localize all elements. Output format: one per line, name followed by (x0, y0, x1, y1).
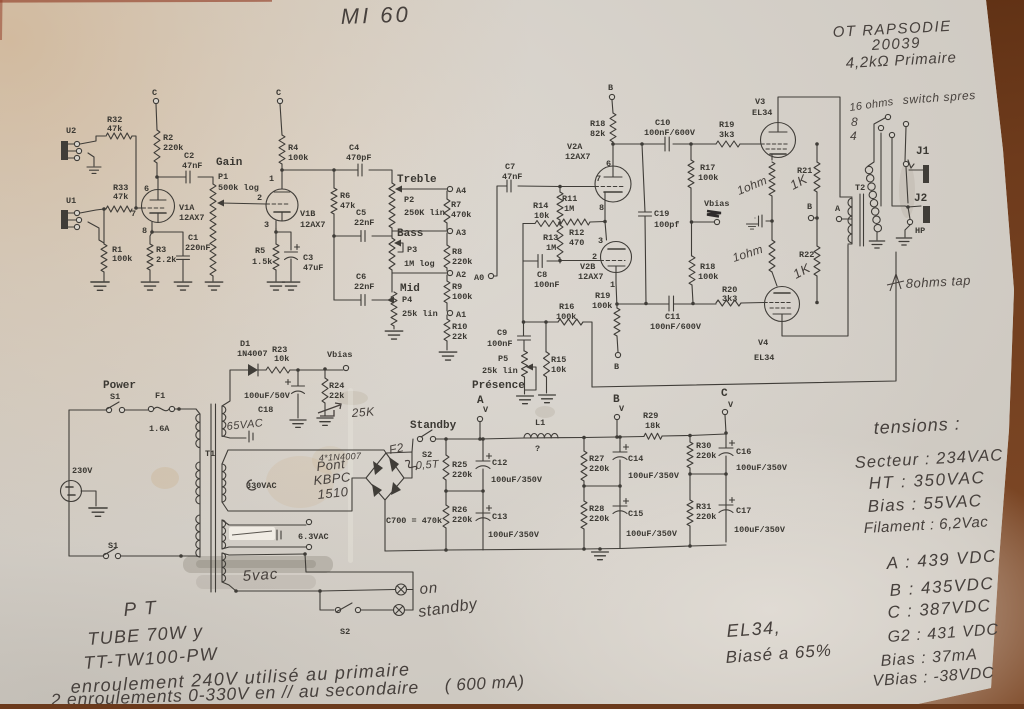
svg-text:C12: C12 (492, 458, 507, 468)
V3 plate wire to OT (778, 97, 840, 197)
svg-text:C: C (152, 88, 157, 98)
svg-text:R15: R15 (551, 355, 566, 365)
svg-text:T1: T1 (205, 449, 215, 459)
svg-text:100uF/350V: 100uF/350V (628, 471, 680, 481)
wire bass row (392, 228, 447, 238)
svg-text:470: 470 (569, 238, 584, 248)
warm tint top-left corner (0, 0, 1, 1)
svg-text:B: B (807, 202, 812, 212)
svg-text:100k: 100k (288, 153, 308, 163)
svg-text:220k: 220k (452, 515, 472, 525)
svg-text:U2: U2 (66, 126, 76, 136)
wire to V2B grid (560, 258, 600, 263)
svg-text:R13: R13 (543, 233, 558, 243)
T1 5V winding (222, 553, 226, 582)
svg-text:47uF: 47uF (303, 263, 323, 273)
svg-text:V1B: V1B (300, 209, 315, 219)
svg-text:22k: 22k (329, 391, 344, 401)
tube V2B 12AX7 (601, 242, 632, 273)
svg-text:R7: R7 (451, 200, 461, 210)
svg-text:A1: A1 (456, 310, 466, 320)
T1 bias winding 65VAC (222, 406, 226, 436)
svg-text:220nF: 220nF (185, 243, 211, 253)
T2 secondary (hand-drawn loops) (865, 166, 872, 173)
svg-text:R19: R19 (719, 120, 734, 130)
svg-text:7: 7 (131, 209, 136, 219)
svg-text:4: 4 (850, 129, 857, 143)
svg-text:12AX7: 12AX7 (300, 220, 326, 230)
svg-text:Présence: Présence (472, 380, 525, 392)
svg-text:47nF: 47nF (182, 161, 202, 171)
node B (bias test) (816, 192, 818, 246)
svg-text:1.6A: 1.6A (149, 424, 170, 434)
input jack U2 (61, 141, 68, 160)
svg-text:C15: C15 (628, 509, 643, 519)
svg-text:C6: C6 (356, 272, 366, 282)
svg-text:R25: R25 (452, 460, 467, 470)
svg-text:7: 7 (596, 174, 601, 184)
svg-text:V: V (619, 404, 625, 414)
svg-text:100nF/600V: 100nF/600V (644, 128, 696, 138)
V3 cathode resistor 1 ohm (769, 162, 775, 196)
svg-text:R22: R22 (799, 250, 814, 260)
node grid V1A (102, 207, 106, 211)
svg-text:22nF: 22nF (354, 282, 374, 292)
wire left branch down to C8 (522, 224, 524, 262)
svg-text:U1: U1 (66, 196, 76, 206)
on/standby circuit (305, 554, 413, 610)
svg-text:1: 1 (269, 174, 274, 184)
svg-text:220k: 220k (696, 451, 716, 461)
svg-text:C19: C19 (654, 209, 669, 219)
svg-text:P5: P5 (498, 354, 508, 364)
svg-text:R4: R4 (288, 143, 298, 153)
wire U1 sleeve down (88, 222, 104, 243)
svg-text:2.2k: 2.2k (156, 255, 176, 265)
node A3 (447, 228, 452, 233)
svg-text:1: 1 (610, 280, 615, 290)
svg-text:R30: R30 (696, 441, 711, 451)
svg-text:C1: C1 (188, 233, 198, 243)
svg-text:R26: R26 (452, 505, 467, 515)
white-out correction patch (229, 527, 275, 540)
svg-text:1M: 1M (546, 243, 556, 253)
svg-text:220k: 220k (163, 143, 183, 153)
capacitor C16 (730, 441, 735, 446)
svg-text:470k: 470k (451, 210, 471, 220)
wire R32 to grid node (132, 136, 136, 208)
P4 wiper from C6 (385, 299, 389, 301)
svg-text:R3: R3 (156, 245, 166, 255)
svg-text:12AX7: 12AX7 (565, 152, 591, 162)
svg-text:F1: F1 (155, 391, 165, 401)
svg-text:A0: A0 (474, 273, 484, 283)
svg-text:C11: C11 (665, 312, 680, 322)
svg-text:C17: C17 (736, 506, 751, 516)
svg-text:12AX7: 12AX7 (179, 213, 205, 223)
svg-text:Power: Power (103, 380, 136, 392)
svg-text:Bass: Bass (397, 228, 423, 240)
svg-text:V3: V3 (755, 97, 765, 107)
svg-text:V4: V4 (758, 338, 768, 348)
svg-text:D1: D1 (240, 339, 250, 349)
svg-text:47nF: 47nF (502, 172, 522, 182)
svg-text:V: V (483, 405, 489, 415)
T1 core (211, 404, 216, 592)
svg-text:EL34,: EL34, (726, 617, 782, 641)
svg-text:6: 6 (144, 184, 149, 194)
wire A0 to C7 (494, 186, 507, 276)
svg-text:6: 6 (606, 159, 611, 169)
P1 wiper wire to V1B grid (221, 203, 266, 204)
svg-text:47k: 47k (107, 124, 122, 134)
svg-text:100nF/600V: 100nF/600V (650, 322, 702, 332)
svg-text:R16: R16 (559, 302, 574, 312)
svg-text:J2: J2 (914, 193, 927, 205)
svg-text:R27: R27 (589, 454, 604, 464)
svg-text:?: ? (535, 444, 540, 454)
P2 wiper to A4 (399, 188, 447, 190)
bridge rectifier (366, 453, 404, 500)
svg-text:5vac: 5vac (242, 566, 279, 585)
svg-text:10k: 10k (534, 211, 549, 221)
svg-text:Standby: Standby (410, 420, 457, 432)
wire U2 tip to R32 (80, 136, 105, 144)
svg-text:C2: C2 (184, 151, 194, 161)
svg-text:C18: C18 (258, 405, 273, 415)
indicator lamp on (396, 584, 407, 595)
wire C8 branch down to C9 junction (522, 261, 524, 322)
tube V1A 12AX7 (142, 190, 175, 223)
svg-text:R10: R10 (452, 322, 467, 332)
svg-text:100k: 100k (452, 292, 472, 302)
svg-text:C10: C10 (655, 118, 670, 128)
svg-text:R9: R9 (452, 282, 462, 292)
svg-text:R24: R24 (329, 381, 344, 391)
svg-text:R19: R19 (595, 291, 610, 301)
svg-text:V2A: V2A (567, 142, 583, 152)
svg-text:C: C (276, 88, 281, 98)
svg-text:470pF: 470pF (346, 153, 372, 163)
left mains wire (68, 410, 70, 556)
svg-text:25K: 25K (350, 404, 375, 420)
T1 heater winding 6.3VAC (222, 520, 226, 549)
handwritten 8 ohms tap + arrow (887, 274, 904, 291)
ground R1 (91, 282, 109, 290)
svg-text:82k: 82k (590, 129, 605, 139)
capacitor C14 (624, 445, 629, 450)
svg-text:100pf: 100pf (654, 220, 680, 230)
node B bottom (615, 352, 620, 357)
svg-text:on: on (419, 579, 439, 598)
svg-text:220k: 220k (452, 470, 472, 480)
svg-text:2: 2 (592, 252, 597, 262)
wire grid node to V1A (136, 207, 142, 209)
svg-text:R8: R8 (452, 247, 462, 257)
svg-text:EL34: EL34 (754, 353, 774, 363)
T2 core (860, 194, 864, 246)
svg-text:100uF/50V: 100uF/50V (244, 391, 291, 401)
handwritten trimmer mark 25K (318, 403, 341, 416)
svg-text:1N4007: 1N4007 (237, 349, 268, 359)
svg-text:V1A: V1A (179, 203, 195, 213)
cathode bypass cap + ground (759, 215, 773, 227)
svg-text:6.3VAC: 6.3VAC (298, 532, 329, 542)
svg-text:S1: S1 (110, 392, 120, 402)
wire U1 tip to grid node (80, 209, 104, 213)
svg-text:22k: 22k (452, 332, 467, 342)
svg-text:500k log: 500k log (218, 183, 259, 193)
svg-text:EL34: EL34 (752, 108, 772, 118)
wire V1B cathode node (276, 228, 291, 250)
svg-text:C8: C8 (537, 270, 547, 280)
svg-text:2: 2 (257, 193, 262, 203)
svg-text:12AX7: 12AX7 (578, 272, 604, 282)
svg-text:R5: R5 (255, 246, 265, 256)
svg-text:Vbias: Vbias (704, 199, 730, 209)
svg-text:10k: 10k (274, 354, 289, 364)
svg-text:P1: P1 (218, 172, 228, 182)
B+ rail (446, 434, 726, 439)
svg-text:R14: R14 (533, 201, 548, 211)
svg-text:A2: A2 (456, 270, 466, 280)
ground U2 (88, 153, 94, 166)
svg-text:C14: C14 (628, 454, 643, 464)
wire V1B plate to tone stack (282, 170, 392, 183)
svg-text:MI 60: MI 60 (340, 2, 411, 29)
svg-text:PT: PT (123, 597, 165, 621)
svg-text:P3: P3 (407, 245, 417, 255)
capacitor C12 (487, 454, 492, 459)
bridge + output riser (386, 452, 412, 478)
svg-text:Mid: Mid (400, 283, 420, 295)
svg-text:HP: HP (915, 226, 925, 236)
svg-text:8: 8 (599, 203, 604, 213)
ground rail bottom (385, 545, 726, 551)
wire V1A cathode node (150, 229, 183, 256)
svg-text:C700 = 470k: C700 = 470k (386, 516, 442, 526)
svg-text:25k lin: 25k lin (402, 309, 438, 319)
svg-text:V: V (728, 400, 734, 410)
indicator lamp standby (394, 605, 405, 616)
svg-text:A3: A3 (456, 228, 466, 238)
svg-text:100uF/350V: 100uF/350V (734, 525, 786, 535)
svg-text:1.5k: 1.5k (252, 257, 272, 267)
svg-text:100k: 100k (112, 254, 132, 264)
svg-text:1M: 1M (564, 204, 574, 214)
svg-text:25k lin: 25k lin (482, 366, 518, 376)
svg-text:R18: R18 (700, 262, 715, 272)
input jack U1 (61, 210, 68, 229)
wire C7 to V2A grid (518, 185, 595, 188)
svg-text:C9: C9 (497, 328, 507, 338)
thin red paper edge top-left (0, 0, 272, 3)
bridge - output (384, 500, 386, 551)
svg-text:10k: 10k (551, 365, 566, 375)
svg-text:230V: 230V (72, 466, 93, 476)
node A4 (447, 186, 452, 191)
svg-text:C5: C5 (356, 208, 366, 218)
V4 plate wire to OT (782, 245, 848, 336)
svg-text:100uF/350V: 100uF/350V (736, 463, 788, 473)
svg-text:R28: R28 (589, 504, 604, 514)
tube V1B 12AX7 (266, 189, 298, 221)
capacitor C17 (730, 498, 735, 503)
svg-text:100nF: 100nF (534, 280, 560, 290)
svg-text:R29: R29 (643, 411, 658, 421)
svg-text:T2: T2 (855, 183, 865, 193)
tube V2A 12AX7 (595, 166, 631, 202)
svg-text:47k: 47k (113, 192, 128, 202)
T1 main secondary 330VAC (222, 464, 226, 502)
svg-text:R17: R17 (700, 163, 715, 173)
svg-text:8: 8 (142, 226, 147, 236)
svg-text:8: 8 (851, 115, 858, 129)
light sheen bottom-center-right (0, 0, 1, 1)
svg-text:R6: R6 (340, 191, 350, 201)
svg-text:3: 3 (264, 220, 269, 230)
svg-text:R31: R31 (696, 502, 711, 512)
feedback tap wire (8 ohms) (592, 252, 896, 387)
svg-text:R12: R12 (569, 228, 584, 238)
svg-text:1M log: 1M log (404, 259, 435, 269)
svg-text:C13: C13 (492, 512, 507, 522)
svg-text:P2: P2 (404, 195, 414, 205)
svg-text:22nF: 22nF (354, 218, 374, 228)
svg-text:A: A (835, 204, 841, 214)
capacitor C13 (487, 506, 492, 511)
V4 cathode resistor 1 ohm (771, 221, 773, 240)
capacitor C15 (624, 499, 629, 504)
T1 primary winding (196, 409, 200, 414)
svg-text:P4: P4 (402, 295, 412, 305)
svg-text:A4: A4 (456, 186, 466, 196)
wire mid row / node A2 (392, 270, 447, 292)
T2 secondary ground (876, 232, 878, 240)
svg-text:47k: 47k (340, 201, 355, 211)
svg-text:B: B (608, 83, 613, 93)
svg-text:0,5T: 0,5T (415, 458, 440, 472)
svg-text:B: B (614, 362, 619, 372)
svg-text:C4: C4 (349, 143, 359, 153)
svg-text:C3: C3 (303, 253, 313, 263)
svg-text:220k: 220k (696, 512, 716, 522)
node A1 (447, 310, 452, 315)
svg-text:Treble: Treble (397, 174, 437, 186)
svg-text:3k3: 3k3 (719, 130, 734, 140)
svg-text:100k: 100k (698, 272, 718, 282)
svg-text:250K lin: 250K lin (404, 208, 445, 218)
svg-text:3: 3 (598, 236, 603, 246)
svg-text:220k: 220k (589, 464, 609, 474)
svg-text:R2: R2 (163, 133, 173, 143)
svg-text:100k: 100k (592, 301, 612, 311)
svg-text:100uF/350V: 100uF/350V (488, 530, 540, 540)
svg-text:100uF/350V: 100uF/350V (626, 529, 678, 539)
svg-text:R11: R11 (562, 194, 577, 204)
speaker tap terminals (868, 118, 885, 166)
svg-text:Vbias: Vbias (327, 350, 353, 360)
svg-text:220k: 220k (589, 514, 609, 524)
svg-text:V2B: V2B (580, 262, 595, 272)
svg-text:R18: R18 (590, 119, 605, 129)
svg-text:C16: C16 (736, 447, 751, 457)
svg-text:C7: C7 (505, 162, 515, 172)
svg-text:220k: 220k (452, 257, 472, 267)
table background (0, 0, 1, 1)
svg-text:C: C (721, 388, 728, 400)
svg-text:Gain: Gain (216, 157, 242, 169)
svg-text:100k: 100k (698, 173, 718, 183)
svg-text:J1: J1 (916, 146, 930, 158)
wire V2B plate stem (605, 222, 607, 241)
svg-text:S2: S2 (340, 627, 350, 637)
svg-text:100uF/350V: 100uF/350V (491, 475, 543, 485)
svg-text:100nF: 100nF (487, 339, 513, 349)
svg-text:18k: 18k (645, 421, 660, 431)
svg-text:L1: L1 (535, 418, 545, 428)
